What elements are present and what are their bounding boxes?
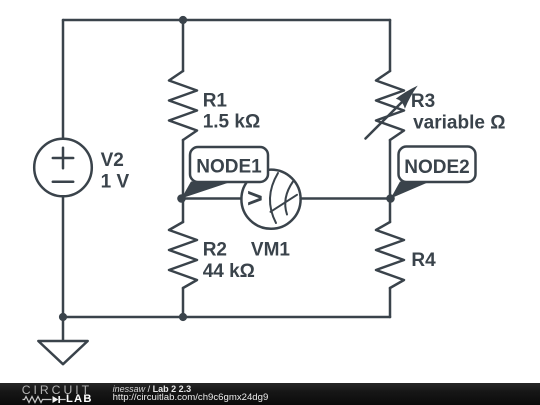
node label NODE1 [181,147,268,198]
wire right branch top [389,20,392,71]
svg-text:1 V: 1 V [101,172,130,193]
footer url text [113,393,269,403]
wire R1 top [182,20,185,71]
wire R3 bottom [389,140,392,199]
svg-text:R3: R3 [411,91,435,112]
wire left branch upper [62,20,65,139]
label VM1 [251,239,291,260]
node NODE2 dot [386,194,395,203]
footer title text [113,385,192,394]
svg-text:variable Ω: variable Ω [413,112,505,133]
label V2 [101,150,130,193]
svg-text:R2: R2 [203,239,227,260]
voltage source V2 [34,139,92,197]
resistor R4 [376,222,404,288]
wire NODE1 to VM1 [183,197,242,200]
resistor R3 variable arrow [366,86,418,139]
label R1 [203,90,261,132]
label R4 [411,250,436,271]
wire R1 bottom [182,140,185,199]
label R3 [411,91,506,134]
wire VM1 to NODE2 [301,197,390,200]
node NODE1 dot [177,194,186,203]
footer bar [0,383,540,405]
CircuitLab logo [0,383,100,405]
resistor R1 [169,71,197,140]
svg-text:NODE1: NODE1 [196,157,262,178]
resistor R3 zigzag [376,71,404,140]
svg-text:R1: R1 [203,90,228,111]
wire R2 bottom [182,288,185,317]
svg-text:V2: V2 [101,150,124,171]
junction dot top [179,16,187,24]
node label NODE2 [391,147,476,199]
voltmeter VM1 [241,170,300,229]
svg-text:R4: R4 [411,250,436,271]
svg-text:NODE2: NODE2 [404,157,469,178]
junction dot ground [59,313,67,321]
wire top rail [63,19,390,22]
wire R2 top [182,199,185,223]
resistor R2 [169,222,197,288]
svg-text:44 kΩ: 44 kΩ [203,261,255,282]
ground [38,317,87,364]
wire left branch lower [62,197,65,318]
svg-text:>: > [247,183,263,213]
junction dot R2 bottom [179,313,187,321]
svg-text:VM1: VM1 [251,239,291,260]
label R2 [203,239,255,282]
wire R4 top [389,199,392,223]
svg-text:1.5 kΩ: 1.5 kΩ [203,112,261,133]
wire bottom rail [63,316,390,319]
voltmeter VM1 polarity mark [247,183,263,213]
wire R4 bottom [389,288,392,317]
